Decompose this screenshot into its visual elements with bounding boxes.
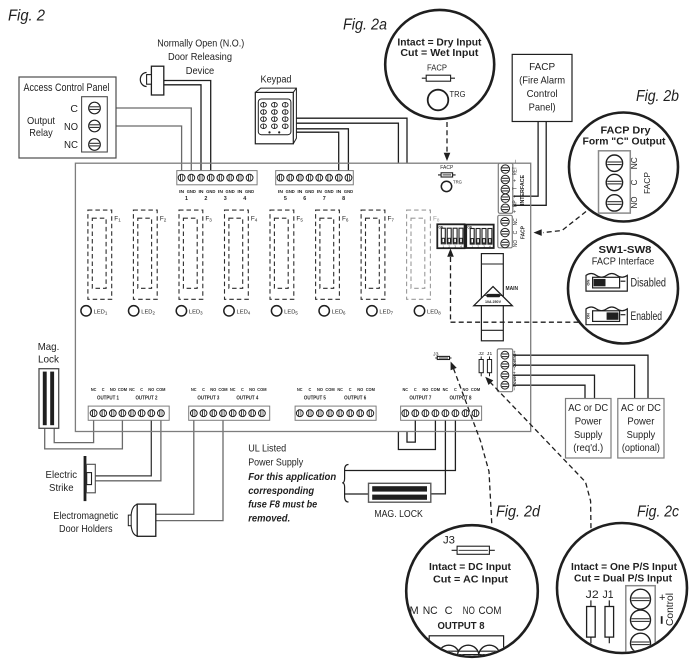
svg-text:Strike: Strike bbox=[49, 482, 74, 494]
svg-text:SW1-SW8: SW1-SW8 bbox=[599, 244, 652, 256]
LED4 bbox=[224, 306, 234, 316]
svg-text:F3: F3 bbox=[205, 216, 212, 223]
brace for door pair bbox=[342, 465, 348, 503]
svg-text:1: 1 bbox=[185, 196, 188, 202]
svg-text:J1: J1 bbox=[487, 351, 493, 357]
dashed leader 2d to J3 bbox=[451, 362, 457, 371]
wire output8 NC to mag lock 2 bbox=[431, 420, 446, 494]
svg-text:NO: NO bbox=[422, 387, 428, 392]
svg-text:(optional): (optional) bbox=[622, 443, 660, 454]
svg-text:FACP: FACP bbox=[529, 61, 555, 73]
svg-text:C: C bbox=[513, 230, 519, 234]
wire door releasing device to zone input IN2 bbox=[164, 85, 201, 175]
callout circle Fig 2a bbox=[385, 10, 494, 119]
SW widget disabled bbox=[586, 274, 627, 292]
svg-text:F8: F8 bbox=[433, 216, 440, 223]
svg-text:COM: COM bbox=[325, 387, 334, 392]
svg-text:IN: IN bbox=[336, 189, 342, 195]
LED7 bbox=[367, 306, 377, 316]
svg-text:MAG. LOCK: MAG. LOCK bbox=[374, 509, 423, 520]
svg-text:COM: COM bbox=[366, 387, 375, 392]
svg-text:Power Supply: Power Supply bbox=[248, 457, 304, 469]
output terminal strip OUTPUT 5-6 bbox=[295, 406, 376, 420]
wire door holder to output3 COM bbox=[156, 420, 223, 520]
svg-text:LED7: LED7 bbox=[379, 309, 393, 315]
wire keypad line 2 to board edge bbox=[296, 123, 398, 163]
svg-text:GND: GND bbox=[187, 189, 197, 195]
keypad buttons bbox=[261, 103, 267, 108]
svg-text:J2: J2 bbox=[478, 351, 484, 357]
input terminal strip zones 5-8 bbox=[276, 171, 354, 185]
svg-text:Normally Open (N.O.): Normally Open (N.O.) bbox=[157, 37, 244, 49]
svg-text:Output: Output bbox=[27, 115, 55, 127]
svg-text:C: C bbox=[102, 387, 105, 392]
svg-text:F7: F7 bbox=[387, 216, 394, 223]
svg-text:Form "C" Output: Form "C" Output bbox=[583, 136, 666, 148]
svg-text:IN: IN bbox=[237, 189, 243, 195]
svg-text:OUTPUT 2: OUTPUT 2 bbox=[135, 395, 157, 401]
svg-text:COM: COM bbox=[471, 387, 480, 392]
svg-text:Fig. 2d: Fig. 2d bbox=[496, 504, 541, 521]
svg-text:NO: NO bbox=[148, 387, 154, 392]
svg-text:NO: NO bbox=[463, 605, 475, 617]
svg-text:GND: GND bbox=[324, 189, 334, 195]
svg-text:INTERFACE: INTERFACE bbox=[520, 174, 526, 205]
svg-text:NC: NC bbox=[129, 387, 135, 392]
svg-text:COM: COM bbox=[479, 605, 502, 617]
svg-text:10A 250V: 10A 250V bbox=[485, 300, 502, 304]
circle 2c contents bbox=[571, 562, 678, 662]
svg-text:FACP: FACP bbox=[643, 172, 652, 194]
wire FACP panel to interface terminal BP bbox=[514, 122, 547, 206]
svg-text:GND: GND bbox=[226, 189, 236, 195]
svg-text:NC: NC bbox=[337, 387, 343, 392]
LED8 bbox=[414, 306, 424, 316]
svg-text:C: C bbox=[70, 103, 78, 115]
svg-text:Cut = Dual P/S Input: Cut = Dual P/S Input bbox=[574, 573, 673, 584]
SW widget enabled bbox=[586, 307, 627, 325]
svg-text:OUTPUT 5: OUTPUT 5 bbox=[304, 395, 326, 401]
svg-text:IN: IN bbox=[199, 189, 205, 195]
svg-text:J2: J2 bbox=[586, 589, 599, 601]
svg-text:NO: NO bbox=[317, 387, 323, 392]
svg-text:OUTPUT 1: OUTPUT 1 bbox=[97, 395, 119, 401]
svg-text:C: C bbox=[445, 605, 453, 617]
on-board FACP fuse bbox=[438, 174, 456, 176]
svg-text:AC or DC: AC or DC bbox=[568, 403, 608, 414]
dashed leader 2b to FACP block bbox=[543, 212, 586, 233]
svg-text:Disabled: Disabled bbox=[631, 275, 667, 289]
FACP dry contact block bbox=[498, 215, 513, 248]
svg-text:J1: J1 bbox=[603, 589, 614, 601]
svg-text:Supply: Supply bbox=[574, 430, 603, 441]
door releasing device body bbox=[151, 66, 163, 95]
svg-text:Device: Device bbox=[186, 65, 215, 77]
circle 2d contents bbox=[410, 535, 512, 662]
svg-text:5: 5 bbox=[284, 196, 287, 202]
MAIN fuse body bbox=[481, 254, 503, 341]
svg-text:Fig. 2: Fig. 2 bbox=[8, 8, 45, 25]
dashed leader SW circle to DIP switches bbox=[447, 249, 454, 257]
svg-text:F4: F4 bbox=[251, 216, 258, 223]
fuse F7 bbox=[361, 210, 385, 299]
wire mag lock leg to output1 NC bbox=[54, 420, 93, 442]
svg-text:GND: GND bbox=[344, 189, 354, 195]
wire access panel relay C to zone input GND1 bbox=[100, 108, 191, 175]
AC or DC power supply required box bbox=[566, 399, 612, 459]
callout circle SW1-SW8 bbox=[568, 234, 678, 344]
svg-text:TRG: TRG bbox=[453, 180, 462, 185]
svg-text:fuse F8 must be: fuse F8 must be bbox=[248, 499, 317, 511]
svg-text:NC: NC bbox=[630, 157, 639, 169]
wire FACP panel to interface terminal + bbox=[514, 122, 539, 197]
output relay screw NO bbox=[89, 120, 101, 132]
svg-text:FACP Interface: FACP Interface bbox=[592, 255, 655, 267]
svg-text:UL Listed: UL Listed bbox=[248, 443, 286, 455]
output terminal strip OUTPUT 3-4 bbox=[189, 406, 270, 420]
svg-text:OUTPUT 6: OUTPUT 6 bbox=[344, 395, 366, 401]
svg-text:Enabled: Enabled bbox=[631, 309, 663, 323]
fuse F5 bbox=[270, 210, 294, 299]
svg-text:Cut = Wet Input: Cut = Wet Input bbox=[400, 48, 479, 59]
svg-text:C: C bbox=[349, 387, 352, 392]
FACP fire alarm control panel box bbox=[512, 54, 572, 121]
svg-text:IN: IN bbox=[297, 189, 303, 195]
circle 2a TRG circle bbox=[428, 90, 449, 111]
wire control + to optional supply bbox=[513, 355, 648, 398]
svg-text:Door Releasing: Door Releasing bbox=[168, 51, 232, 63]
svg-text:(req'd.): (req'd.) bbox=[573, 443, 603, 454]
svg-text:NC: NC bbox=[64, 139, 78, 151]
svg-text:FACP: FACP bbox=[520, 226, 526, 239]
svg-text:7: 7 bbox=[323, 196, 326, 202]
svg-text:COM: COM bbox=[431, 387, 440, 392]
svg-text:For this application: For this application bbox=[248, 471, 336, 483]
svg-text:Control: Control bbox=[512, 354, 518, 368]
svg-text:Fig. 2b: Fig. 2b bbox=[636, 88, 679, 105]
keypad body bbox=[255, 88, 296, 144]
wire mag lock leg to output1 COM bbox=[45, 420, 123, 449]
LED6 bbox=[319, 306, 329, 316]
svg-text:F5: F5 bbox=[296, 216, 303, 223]
wire access panel relay NO to zone input IN1 bbox=[100, 126, 182, 175]
circle 2a fuse symbol bbox=[422, 77, 455, 79]
svg-text:F2: F2 bbox=[160, 216, 167, 223]
DIP switch block SW5-SW8 bbox=[466, 225, 494, 248]
svg-text:GND: GND bbox=[305, 189, 315, 195]
svg-text:OUTPUT 3: OUTPUT 3 bbox=[197, 395, 219, 401]
svg-text:Cut = AC Input: Cut = AC Input bbox=[433, 574, 509, 585]
MAIN fuse warning triangle bbox=[474, 287, 513, 306]
svg-text:Electromagnetic: Electromagnetic bbox=[53, 510, 118, 522]
svg-text:MAIN: MAIN bbox=[506, 286, 519, 292]
svg-text:OUTPUT 8: OUTPUT 8 bbox=[438, 620, 485, 632]
wire door holder to output3 NC bbox=[156, 420, 194, 514]
svg-text:C: C bbox=[140, 387, 143, 392]
callout circle Fig 2b bbox=[569, 113, 678, 222]
svg-text:Power: Power bbox=[575, 416, 603, 427]
svg-text:C: C bbox=[308, 387, 311, 392]
wire power + to required supply bbox=[513, 375, 595, 398]
svg-text:NO: NO bbox=[357, 387, 363, 392]
fuse F2 bbox=[133, 210, 157, 299]
input terminal strip zones 1-4 bbox=[177, 171, 257, 185]
svg-text:+: + bbox=[513, 195, 519, 198]
main control board outline bbox=[75, 163, 530, 431]
svg-text:BP: BP bbox=[513, 200, 519, 207]
svg-text:Access Control Panel: Access Control Panel bbox=[24, 82, 110, 94]
svg-text:8: 8 bbox=[342, 196, 345, 202]
output terminal strip OUTPUT 7-8 bbox=[401, 406, 482, 420]
DIP switch block SW1-SW4 bbox=[437, 224, 464, 248]
svg-text:COM: COM bbox=[118, 387, 127, 392]
svg-text:J3: J3 bbox=[443, 535, 455, 547]
svg-text:–: – bbox=[512, 367, 518, 370]
svg-text:IN: IN bbox=[278, 189, 284, 195]
LED5 bbox=[271, 306, 281, 316]
svg-text:GND: GND bbox=[206, 189, 216, 195]
svg-text:NO: NO bbox=[513, 240, 519, 247]
svg-text:LED5: LED5 bbox=[284, 309, 298, 315]
output relay screw C bbox=[89, 102, 101, 114]
svg-text:Door Holders: Door Holders bbox=[59, 523, 113, 535]
svg-text:Mag.: Mag. bbox=[38, 341, 60, 353]
wire control - to optional supply bbox=[513, 365, 635, 398]
svg-text:FACP: FACP bbox=[440, 165, 453, 171]
svg-text:AC or DC: AC or DC bbox=[621, 403, 661, 414]
svg-text:4: 4 bbox=[243, 196, 246, 202]
wire output8 C to brace bbox=[349, 420, 456, 470]
svg-text:C: C bbox=[630, 179, 639, 185]
svg-text:LED2: LED2 bbox=[141, 309, 155, 315]
wire power - to required supply bbox=[513, 385, 585, 398]
svg-text:ON: ON bbox=[586, 313, 590, 320]
svg-text:Relay: Relay bbox=[29, 127, 53, 139]
door holder body bbox=[131, 504, 139, 536]
fuse F4 bbox=[225, 210, 249, 299]
svg-text:Keypad: Keypad bbox=[261, 75, 292, 86]
output relay screw NC bbox=[89, 139, 101, 151]
wire brace to mag lock 2 left bbox=[349, 493, 369, 495]
svg-text:TRG: TRG bbox=[450, 90, 466, 99]
svg-text:NO: NO bbox=[249, 387, 255, 392]
wire jumper U board edge to output7 C bbox=[407, 420, 415, 442]
dashed leader 2a to board bbox=[446, 122, 448, 152]
fuse F6 bbox=[316, 210, 340, 299]
svg-text:Power: Power bbox=[512, 374, 518, 386]
svg-text:Lock: Lock bbox=[38, 353, 60, 365]
wire jumper U board edge to output7 COM bbox=[398, 420, 435, 449]
wire keypad line 4 to zone input IN8 bbox=[296, 132, 338, 175]
svg-text:2: 2 bbox=[204, 196, 207, 202]
svg-text:Control: Control bbox=[527, 88, 558, 100]
svg-text:NC: NC bbox=[403, 387, 409, 392]
dashed leader 2c to J2 J1 bbox=[485, 377, 493, 385]
wire keypad line 3 to zone input GND8 bbox=[296, 129, 348, 175]
svg-text:Intact = Dry Input: Intact = Dry Input bbox=[397, 37, 482, 48]
svg-text:GND: GND bbox=[245, 189, 255, 195]
svg-text:LED8: LED8 bbox=[427, 309, 441, 315]
circle 2b terminal block bbox=[599, 151, 631, 213]
svg-text:IN: IN bbox=[218, 189, 224, 195]
svg-text:GND: GND bbox=[286, 189, 296, 195]
mag lock 2 body bbox=[369, 483, 431, 502]
svg-text:NC: NC bbox=[230, 387, 236, 392]
fuse F3 bbox=[179, 210, 203, 299]
svg-text:OUTPUT 7: OUTPUT 7 bbox=[409, 395, 431, 401]
wire electric strike to output2 NO bbox=[95, 420, 151, 476]
svg-text:NC: NC bbox=[443, 387, 449, 392]
svg-text:Fig. 2c: Fig. 2c bbox=[637, 504, 679, 521]
wire keypad line 1 to board edge bbox=[296, 118, 407, 163]
fuse F1 bbox=[88, 210, 112, 299]
svg-text:Power: Power bbox=[627, 416, 655, 427]
svg-text:C: C bbox=[454, 387, 457, 392]
svg-text:NO: NO bbox=[462, 387, 468, 392]
svg-text:NC: NC bbox=[513, 218, 519, 225]
wire door releasing device to zone input GND2 bbox=[164, 81, 211, 176]
AC or DC power supply optional box bbox=[618, 399, 664, 459]
svg-text:–: – bbox=[512, 387, 518, 390]
svg-text:LED6: LED6 bbox=[332, 309, 346, 315]
svg-text:NC: NC bbox=[191, 387, 197, 392]
svg-text:–: – bbox=[513, 160, 519, 163]
electric strike body bbox=[84, 456, 87, 501]
svg-text:corresponding: corresponding bbox=[248, 485, 315, 497]
svg-text:IN: IN bbox=[317, 189, 323, 195]
svg-text:LED4: LED4 bbox=[236, 309, 250, 315]
svg-text:RET: RET bbox=[513, 167, 519, 176]
svg-text:Supply: Supply bbox=[627, 430, 656, 441]
svg-text:Electric: Electric bbox=[46, 469, 78, 481]
svg-text:Fig. 2a: Fig. 2a bbox=[343, 17, 387, 34]
svg-text:+: + bbox=[513, 179, 519, 182]
svg-text:6: 6 bbox=[303, 196, 306, 202]
on-board TRG circle bbox=[441, 181, 451, 191]
svg-text:OUTPUT 4: OUTPUT 4 bbox=[236, 395, 258, 401]
LED2 bbox=[129, 306, 139, 316]
wire electric strike to output2 COM bbox=[95, 420, 161, 481]
svg-text:(Fire Alarm: (Fire Alarm bbox=[519, 75, 565, 87]
svg-text:NO: NO bbox=[64, 121, 78, 133]
svg-text:NC: NC bbox=[297, 387, 303, 392]
svg-text:+: + bbox=[513, 210, 519, 213]
svg-text:NO: NO bbox=[630, 197, 639, 209]
svg-text:+: + bbox=[512, 350, 518, 353]
svg-text:IN: IN bbox=[179, 189, 185, 195]
svg-text:+: + bbox=[512, 371, 518, 374]
svg-text:NO: NO bbox=[110, 387, 116, 392]
FACP interface terminal block bbox=[498, 163, 513, 213]
svg-text:ON: ON bbox=[586, 279, 590, 286]
svg-text:OUTPUT 8: OUTPUT 8 bbox=[449, 395, 471, 401]
svg-text:F1: F1 bbox=[114, 216, 121, 223]
svg-text:LED1: LED1 bbox=[94, 309, 108, 315]
svg-text:COM: COM bbox=[156, 387, 165, 392]
svg-text:LED3: LED3 bbox=[189, 309, 203, 315]
fuse F8 bbox=[407, 210, 431, 299]
svg-text:Control: Control bbox=[664, 593, 676, 626]
svg-text:3: 3 bbox=[224, 196, 227, 202]
svg-text:removed.: removed. bbox=[248, 512, 290, 524]
svg-text:F6: F6 bbox=[342, 216, 349, 223]
svg-text:Intact = One P/S Input: Intact = One P/S Input bbox=[571, 562, 678, 573]
svg-text:FACP: FACP bbox=[427, 64, 447, 73]
svg-text:Intact = DC Input: Intact = DC Input bbox=[429, 562, 512, 573]
output terminal strip OUTPUT 1-2 bbox=[88, 406, 169, 420]
mag lock body bbox=[39, 369, 59, 429]
svg-text:NC: NC bbox=[91, 387, 97, 392]
svg-text:Panel): Panel) bbox=[529, 101, 556, 113]
power and control terminal block bbox=[497, 349, 512, 392]
output relay terminal box bbox=[82, 97, 108, 152]
access control panel box bbox=[19, 77, 116, 158]
LED1 bbox=[81, 306, 91, 316]
svg-text:C: C bbox=[241, 387, 244, 392]
svg-text:NO: NO bbox=[210, 387, 216, 392]
svg-text:COM: COM bbox=[218, 387, 227, 392]
svg-text:COM: COM bbox=[257, 387, 266, 392]
svg-text:T: T bbox=[513, 187, 519, 190]
svg-text:NC: NC bbox=[423, 605, 438, 617]
LED3 bbox=[176, 306, 186, 316]
